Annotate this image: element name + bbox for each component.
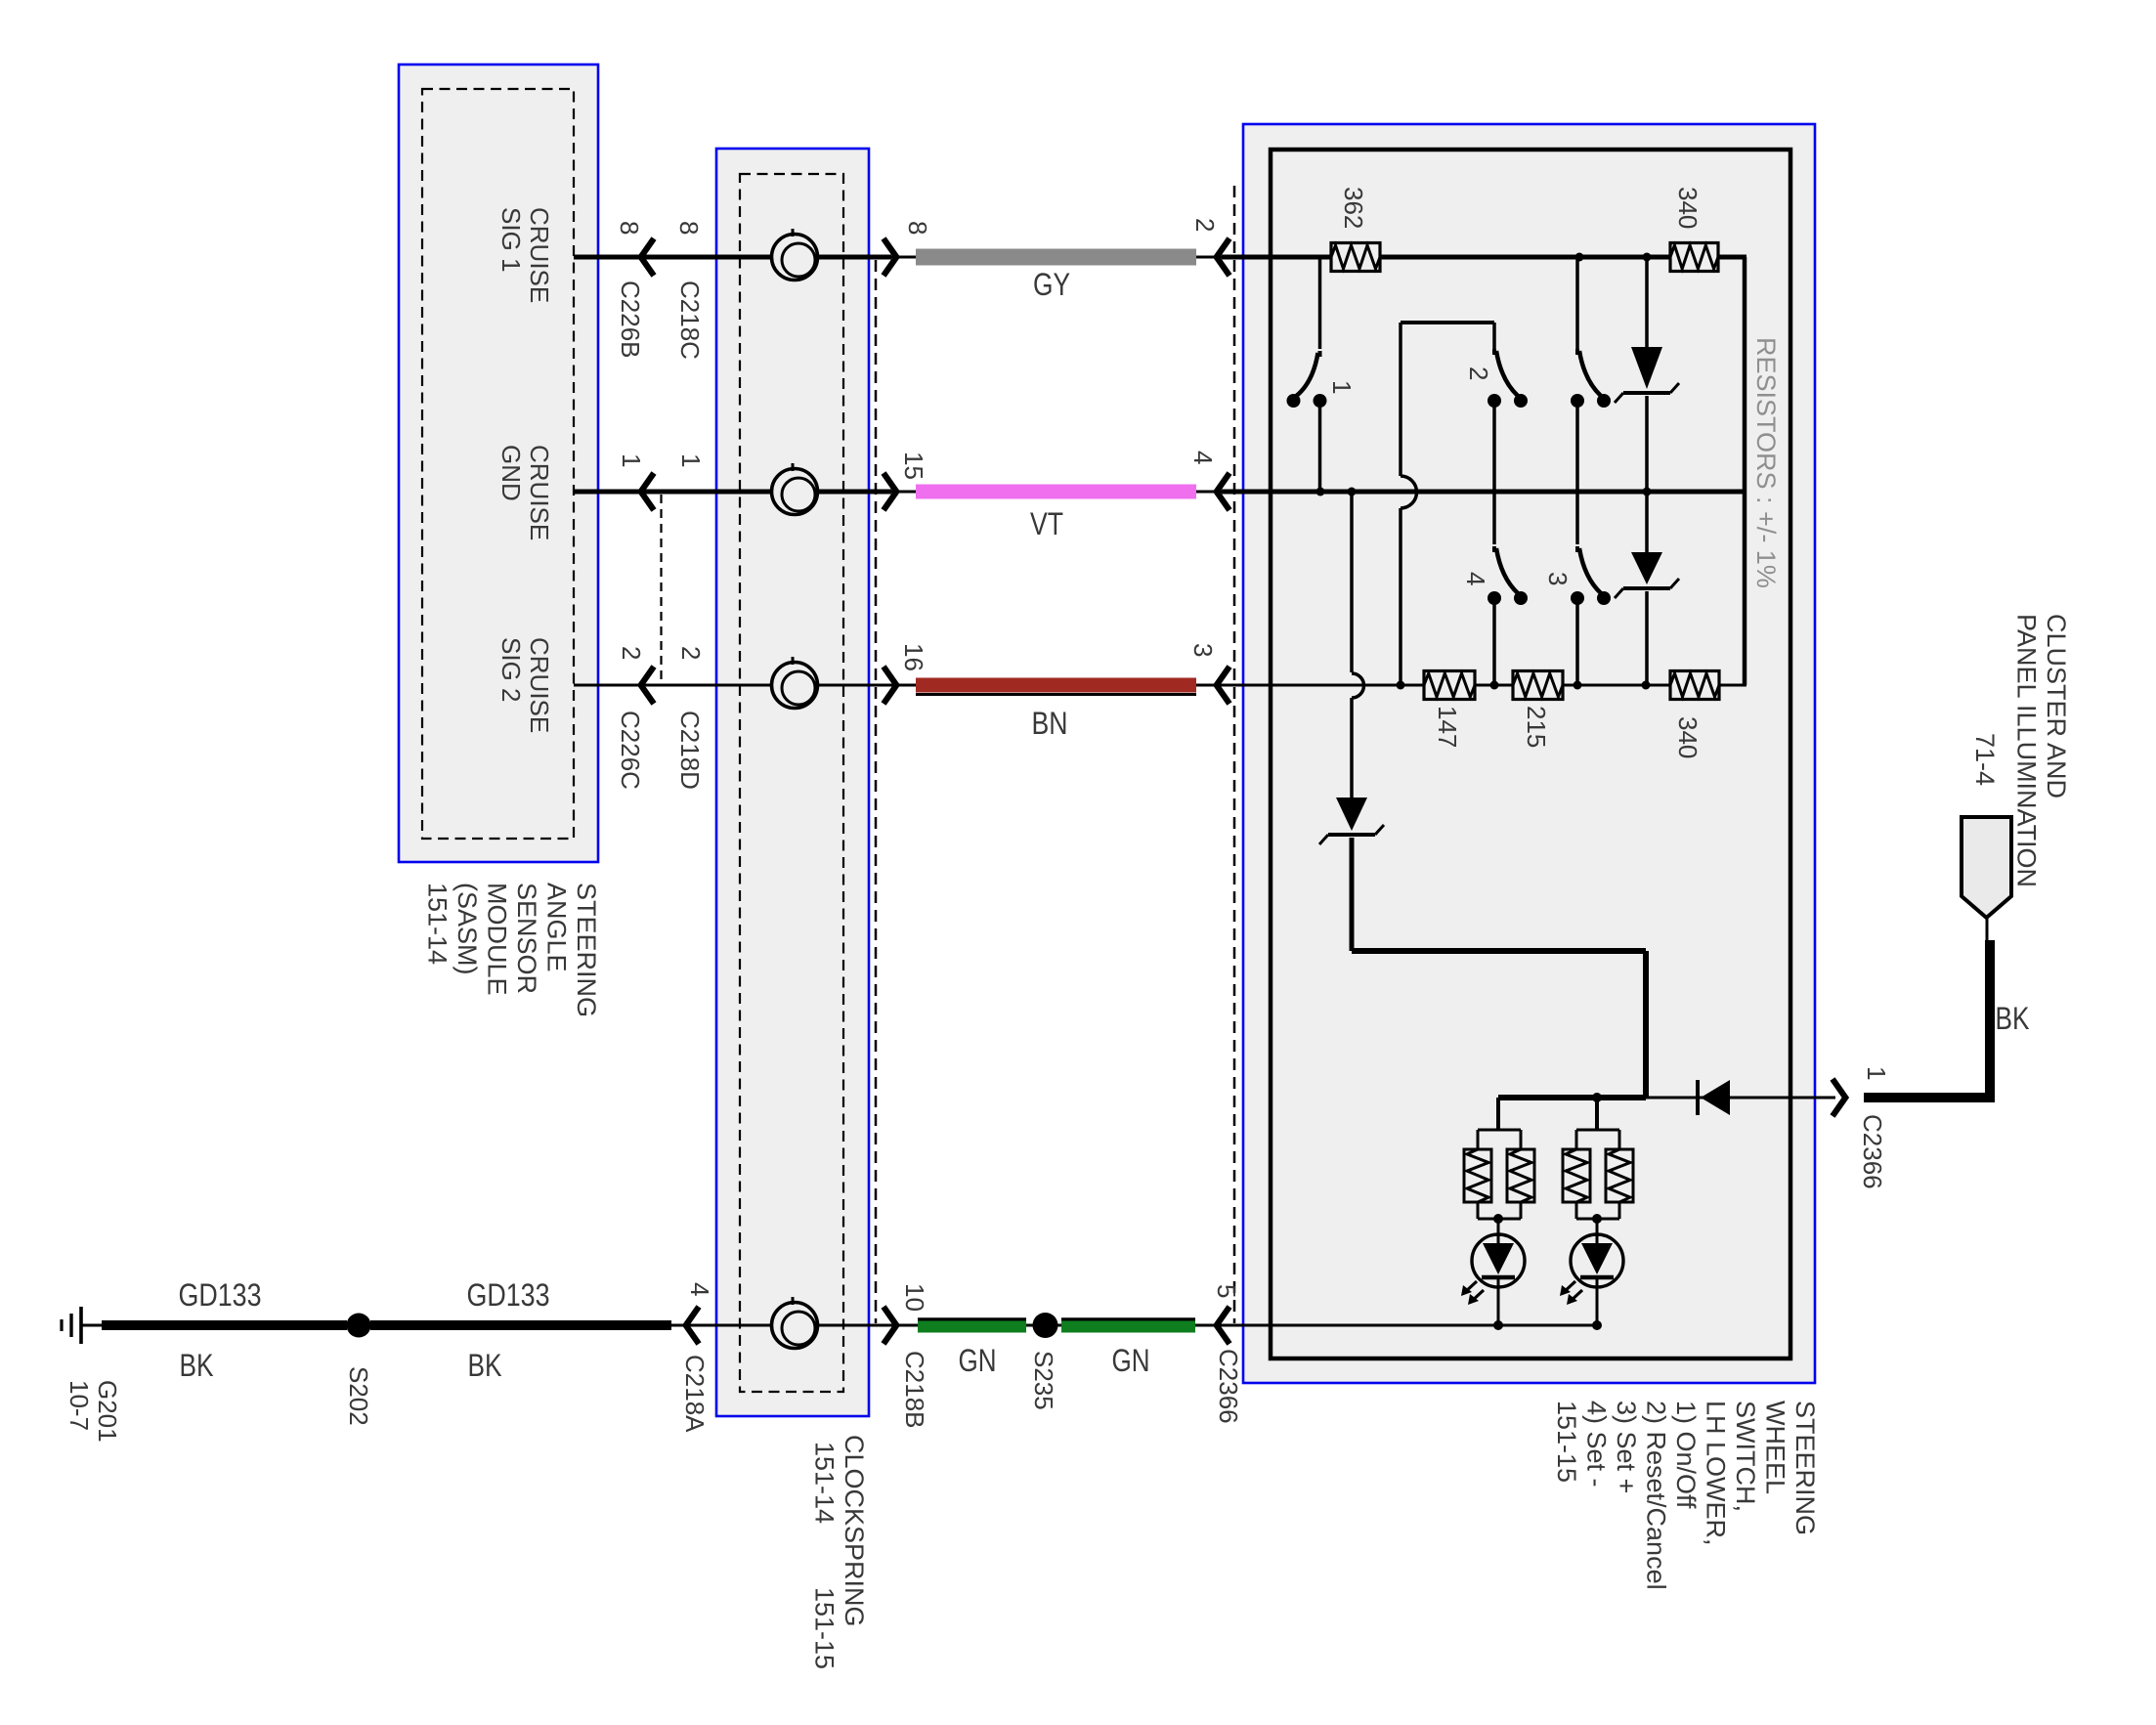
svg-text:BK: BK — [468, 1348, 502, 1383]
svg-text:362: 362 — [1339, 187, 1368, 229]
svg-text:2) Reset/Cancel: 2) Reset/Cancel — [1642, 1401, 1671, 1590]
svg-text:C2366: C2366 — [1858, 1114, 1887, 1189]
svg-text:LH LOWER,: LH LOWER, — [1702, 1401, 1731, 1546]
svg-text:(SASM): (SASM) — [453, 883, 482, 975]
svg-text:RESISTORS : +/- 1%: RESISTORS : +/- 1% — [1751, 337, 1781, 588]
svg-text:PANEL ILLUMINATION: PANEL ILLUMINATION — [2012, 614, 2042, 887]
svg-text:SIG 1: SIG 1 — [496, 207, 526, 272]
svg-text:147: 147 — [1433, 706, 1462, 748]
svg-text:1: 1 — [1862, 1066, 1891, 1080]
svg-text:151-15: 151-15 — [810, 1587, 840, 1669]
svg-text:3) Set +: 3) Set + — [1612, 1401, 1641, 1493]
svg-text:8: 8 — [615, 221, 644, 235]
svg-text:151-14: 151-14 — [423, 883, 453, 965]
svg-text:STEERING: STEERING — [1790, 1401, 1820, 1535]
svg-text:151-14: 151-14 — [810, 1442, 840, 1524]
svg-text:C226C: C226C — [616, 711, 645, 790]
svg-text:4: 4 — [685, 1282, 714, 1296]
svg-text:2: 2 — [1464, 367, 1493, 380]
svg-text:G201: G201 — [93, 1380, 122, 1443]
svg-text:1: 1 — [617, 453, 646, 467]
svg-text:GD133: GD133 — [179, 1277, 262, 1313]
svg-text:340: 340 — [1673, 716, 1703, 758]
svg-text:4: 4 — [1188, 451, 1218, 464]
svg-text:STEERING: STEERING — [572, 883, 601, 1017]
svg-text:5: 5 — [1212, 1284, 1241, 1298]
svg-text:2: 2 — [1190, 218, 1220, 232]
svg-text:GN: GN — [959, 1343, 997, 1378]
svg-text:GND: GND — [496, 445, 526, 501]
svg-text:MODULE: MODULE — [483, 883, 512, 996]
svg-text:1) On/Off: 1) On/Off — [1671, 1401, 1701, 1509]
svg-text:16: 16 — [899, 643, 928, 671]
svg-text:3: 3 — [1543, 572, 1573, 585]
svg-text:C218D: C218D — [675, 711, 705, 790]
svg-text:215: 215 — [1522, 706, 1551, 748]
svg-text:C218B: C218B — [900, 1351, 929, 1429]
svg-text:C218C: C218C — [675, 280, 705, 360]
svg-text:CRUISE: CRUISE — [525, 445, 554, 540]
svg-text:BK: BK — [180, 1348, 214, 1383]
svg-text:CRUISE: CRUISE — [525, 637, 554, 733]
svg-text:C226B: C226B — [616, 280, 645, 359]
svg-text:3: 3 — [1188, 643, 1218, 657]
svg-text:CRUISE: CRUISE — [525, 207, 554, 303]
svg-text:ANGLE: ANGLE — [542, 883, 572, 972]
svg-text:2: 2 — [617, 646, 646, 660]
svg-text:2: 2 — [676, 646, 706, 660]
svg-text:SIG 2: SIG 2 — [496, 637, 526, 702]
svg-text:10: 10 — [900, 1283, 929, 1312]
svg-text:15: 15 — [899, 452, 928, 480]
svg-text:GD133: GD133 — [467, 1277, 550, 1313]
svg-text:S235: S235 — [1029, 1351, 1058, 1410]
svg-text:C2366: C2366 — [1214, 1349, 1243, 1424]
svg-text:10-7: 10-7 — [65, 1380, 94, 1431]
svg-text:1: 1 — [1327, 380, 1357, 394]
svg-text:4) Set -: 4) Set - — [1582, 1401, 1612, 1488]
svg-text:C218A: C218A — [680, 1355, 710, 1433]
svg-text:CLUSTER AND: CLUSTER AND — [2042, 614, 2071, 798]
svg-text:8: 8 — [903, 221, 932, 235]
svg-text:1: 1 — [676, 453, 706, 467]
svg-text:BN: BN — [1032, 706, 1068, 741]
svg-text:BK: BK — [1996, 1001, 2030, 1036]
svg-text:8: 8 — [674, 221, 704, 235]
svg-text:CLOCKSPRING: CLOCKSPRING — [840, 1435, 869, 1627]
svg-text:340: 340 — [1673, 187, 1703, 229]
svg-text:SENSOR: SENSOR — [512, 883, 541, 994]
svg-text:GN: GN — [1112, 1343, 1150, 1378]
svg-text:151-15: 151-15 — [1552, 1401, 1581, 1483]
svg-text:4: 4 — [1461, 572, 1490, 585]
svg-text:71-4: 71-4 — [1970, 733, 2000, 786]
svg-text:SWITCH,: SWITCH, — [1731, 1401, 1760, 1512]
svg-text:WHEEL: WHEEL — [1761, 1401, 1790, 1494]
svg-text:VT: VT — [1030, 506, 1063, 541]
svg-text:GY: GY — [1033, 267, 1070, 302]
svg-text:S202: S202 — [344, 1366, 373, 1426]
